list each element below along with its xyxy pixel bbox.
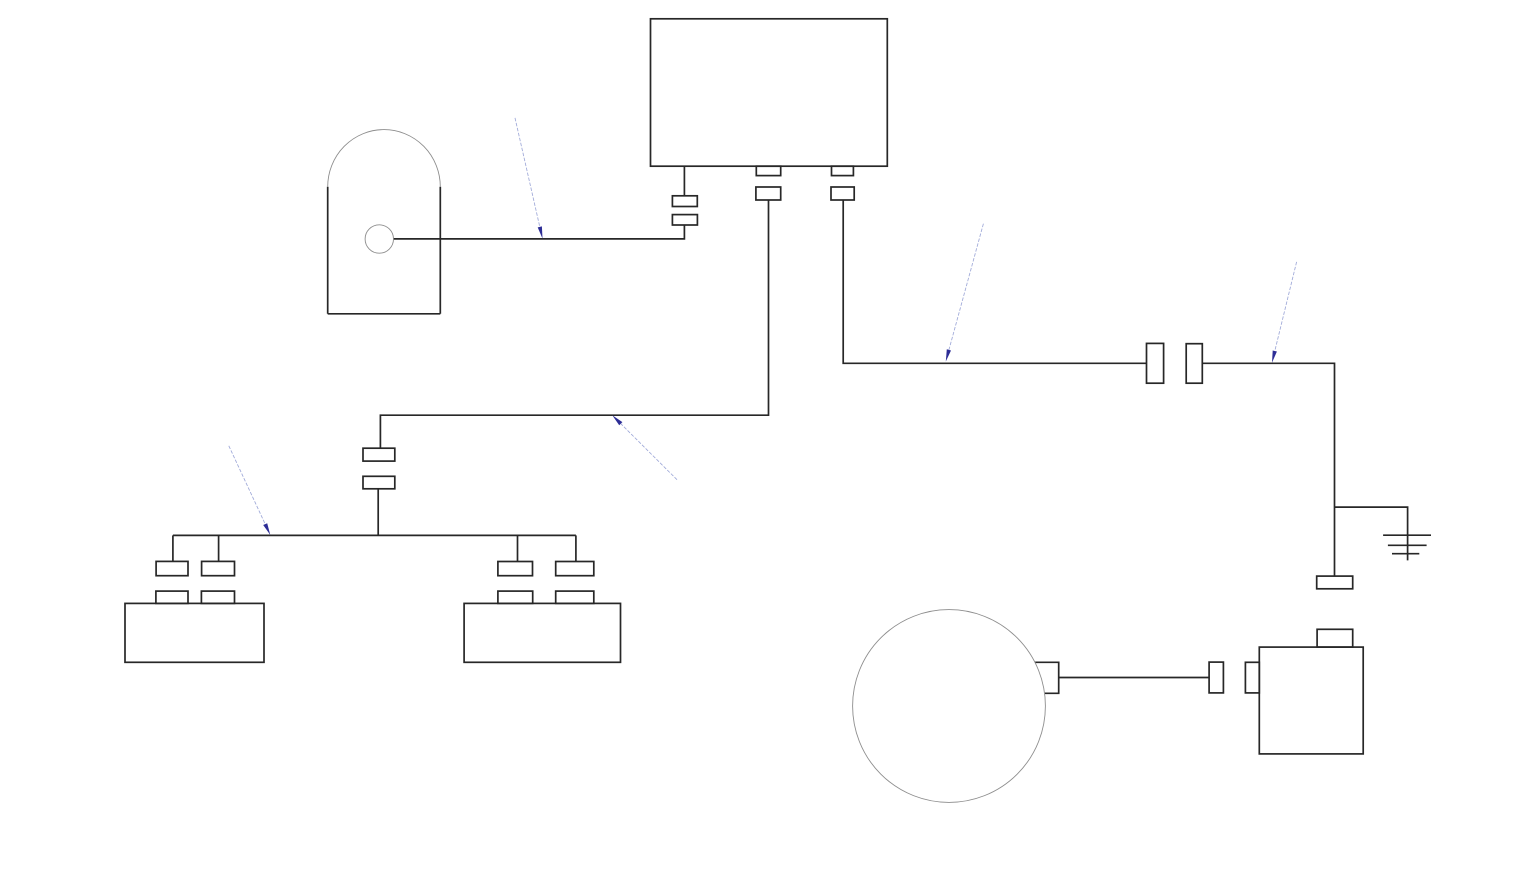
wire (left pin of U1 down)	[683, 166, 685, 196]
connector (left pin upper half)	[672, 196, 697, 207]
connector (right lamp terminal 1)	[498, 562, 533, 576]
wire (left lamp drop 2)	[218, 535, 220, 561]
connector (left pin lower half)	[672, 215, 697, 225]
wire (left lamp drop 1)	[172, 535, 174, 561]
connector (middle pin plug)	[756, 187, 781, 200]
pin (solenoid top lug)	[1317, 629, 1353, 647]
connector (left lamp terminal 2)	[202, 561, 235, 575]
solenoid box M2	[1259, 647, 1363, 754]
node (middle pin stub on U1)	[756, 166, 780, 175]
leader line (callout 5 to lamp bus)	[229, 446, 265, 524]
wire (lamp bus)	[173, 534, 576, 536]
arrowhead (callout 3)	[1272, 351, 1277, 363]
pin (right lamp lug 1)	[498, 591, 533, 603]
wire (connector to horizontal run)	[394, 225, 685, 239]
connector (splice upper half)	[363, 448, 395, 461]
arrowhead (callout 1)	[538, 226, 543, 238]
lamp L2 (right lamp body)	[464, 603, 620, 662]
connector (inline pair right half)	[1186, 344, 1202, 384]
wire (splice to lamp bus)	[377, 489, 379, 536]
connector (splice lower half)	[363, 476, 395, 489]
motor M1 (large circle body)	[853, 610, 1046, 803]
lamp L1 (left lamp body)	[125, 603, 264, 662]
wire (motor to plug)	[1059, 677, 1209, 679]
sensor eyelet circle	[365, 225, 393, 253]
pin (left lamp lug 2)	[201, 591, 234, 603]
control unit box U1	[651, 19, 888, 166]
leader line (callout 4 to middle run wire)	[621, 424, 677, 480]
pin (right lamp lug 2)	[556, 591, 594, 603]
wire (right lamp drop 2)	[575, 535, 577, 561]
pin (left lamp lug 1)	[156, 591, 188, 603]
sensor housing dome arc	[328, 130, 441, 187]
wire (right pin down and across)	[843, 200, 1146, 363]
connector (right lamp terminal 2)	[556, 562, 594, 576]
connector (left lamp terminal 1)	[156, 561, 188, 575]
leader line (callout 2 to right feed wire)	[949, 224, 984, 350]
node (right pin stub on U1)	[832, 166, 854, 175]
connector (right pin plug)	[831, 187, 854, 200]
ground	[1383, 535, 1431, 554]
wire (branch to ground)	[1335, 507, 1408, 560]
wire (middle pin down, left, down to splice)	[380, 200, 768, 448]
connector (motor lead plug)	[1209, 662, 1223, 693]
connector (inline pair left half)	[1147, 343, 1164, 383]
leader line (callout 3 near inline connector)	[1275, 262, 1297, 351]
wire (across and down right side)	[1202, 363, 1334, 576]
pin (motor terminal block)	[1035, 662, 1059, 693]
connector (right side end plug)	[1317, 576, 1353, 589]
leader line (callout 1 to sensor wire)	[515, 118, 540, 227]
wire (right lamp drop 1)	[517, 535, 519, 561]
sensor housing (bell shaped cover)	[328, 187, 441, 314]
arrowhead (callout 2)	[946, 349, 951, 361]
arrowhead (callout 5)	[263, 523, 270, 535]
arrowhead (callout 4)	[612, 415, 622, 425]
pin (solenoid left lug)	[1245, 662, 1259, 693]
